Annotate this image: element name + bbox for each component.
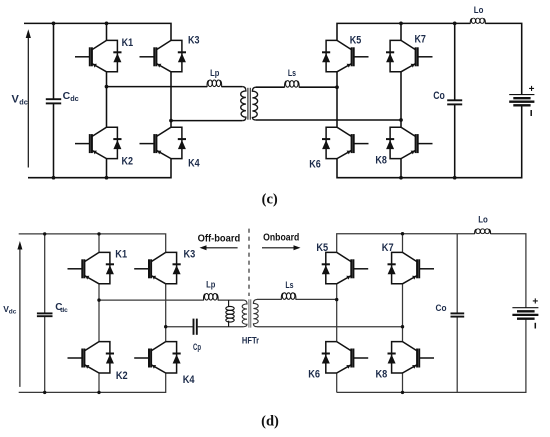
wire: (c) Co branch: [454, 23, 456, 177]
svg-text:K1: K1: [115, 248, 127, 260]
junction: (c) leg1 bottom: [105, 176, 109, 180]
transformer (c) core: [247, 88, 249, 120]
IGBT K7 (d): [388, 252, 435, 283]
svg-text:K3: K3: [184, 248, 196, 260]
wire: (d) top-right rail: [337, 234, 475, 253]
wire: (c) Cdc branch: [53, 23, 55, 177]
IGBT K3: [140, 40, 187, 71]
IGBT K4 (d): [134, 342, 181, 373]
svg-text:dc: dc: [9, 309, 17, 316]
junction: (c) Co bottom: [453, 176, 457, 180]
svg-text:K5: K5: [350, 34, 362, 46]
capacitor Cdc (d): [37, 313, 53, 316]
svg-text:+: +: [532, 297, 538, 308]
node D: (d) leg4 midpoint: [401, 325, 404, 328]
junction: (c) leg4 top: [399, 22, 403, 26]
svg-text:Lp: Lp: [210, 68, 219, 79]
svg-text:Ls: Ls: [285, 280, 293, 291]
svg-text:Off-board: Off-board: [198, 233, 241, 245]
wire: (c) leg4 top stub: [400, 23, 402, 40]
svg-text:K1: K1: [122, 37, 134, 49]
wire: (c) Ls to node C: [299, 86, 337, 88]
transformer (d) core: [248, 299, 250, 327]
junction: (d) leg4 bottom: [401, 391, 404, 394]
svg-text:Co: Co: [433, 90, 445, 102]
svg-text:(d): (d): [261, 413, 279, 429]
IGBT K5: [322, 40, 369, 71]
wire: (d) Lp to transformer: [218, 299, 244, 301]
wire: (c) node A to Lp: [107, 86, 208, 88]
battery (d): [512, 308, 538, 319]
node B: (d) leg2 midpoint: [164, 325, 167, 328]
svg-text:V: V: [12, 93, 20, 105]
svg-text:K6: K6: [309, 159, 321, 171]
node A: (d) leg1 midpoint: [97, 298, 100, 301]
inductor Lp (d): [204, 294, 219, 301]
wire: (c) leg1 bottom stub: [106, 159, 108, 178]
wire: (c) transformer to Ls: [256, 86, 285, 88]
node D: (c) leg4 midpoint: [399, 118, 403, 122]
IGBT K7: [386, 40, 433, 71]
capacitor Co (c): [447, 100, 462, 104]
svg-text:K7: K7: [382, 242, 394, 254]
svg-text:Co: Co: [436, 303, 447, 314]
wire: (c) node B to transformer bottom: [171, 120, 242, 122]
IGBT K2: [75, 127, 122, 158]
wire: (d) leg4 top stub: [402, 234, 404, 253]
inductor Lm (d) magnetizing: [226, 300, 234, 327]
svg-text:K4: K4: [183, 374, 196, 386]
wire: (d) Cp to transformer: [198, 326, 244, 328]
svg-text:Cp: Cp: [193, 342, 201, 353]
wire: (c) top-right rail after Lo: [485, 23, 522, 94]
svg-text:Onboard: Onboard: [263, 231, 299, 243]
inductor Lo (c): [470, 18, 485, 24]
wire: (d) leg1 bottom stub: [98, 373, 100, 392]
wire: (d) leg3 mid: [336, 284, 338, 342]
wire: (c) Lp to transformer: [221, 86, 242, 88]
wire: (c) transformer bottom to node D: [256, 119, 401, 121]
wire: (d) leg3 bottom stub: [336, 373, 338, 392]
IGBT K1 (d): [68, 252, 115, 283]
arrow Off-board: [206, 247, 238, 249]
wire: (c) leg1 mid: [106, 72, 108, 127]
arrow Onboard: [262, 247, 294, 249]
wire: (c) leg1 top stub: [106, 23, 108, 40]
IGBT K2 (d): [68, 342, 115, 373]
IGBT K6 (d): [322, 342, 369, 373]
IGBT K8 (d): [388, 342, 435, 373]
wire: (d) bottom-left rail: [19, 373, 166, 392]
inductor Ls (c): [285, 81, 300, 88]
junction: (c) Cdc bottom: [52, 176, 56, 180]
wire: (d) top-right rail after Lo: [491, 234, 526, 308]
Vdc arrow (c): [26, 29, 31, 167]
IGBT K4: [140, 127, 187, 158]
svg-text:dc: dc: [19, 98, 28, 107]
node B: (c) leg2 midpoint: [169, 119, 173, 123]
capacitor Co (d): [451, 313, 465, 316]
capacitor Cdc (c): [46, 99, 61, 103]
IGBT K1: [75, 40, 122, 71]
wire: (d) transformer to Ls: [257, 298, 281, 300]
wire: (d) leg1 top stub: [98, 234, 100, 253]
svg-text:Lo: Lo: [478, 215, 488, 226]
transformer (d) secondary winding: [253, 299, 258, 326]
svg-text:K2: K2: [122, 156, 134, 168]
svg-text:+: +: [529, 84, 535, 95]
wire: (d) node B to Cp: [166, 326, 193, 328]
node C: (d) leg3 midpoint: [335, 298, 338, 301]
svg-text:(c): (c): [262, 191, 278, 207]
Vdc arrow (d): [17, 241, 22, 387]
svg-text:K2: K2: [116, 370, 128, 382]
svg-text:K5: K5: [316, 242, 328, 254]
svg-text:K4: K4: [188, 158, 200, 170]
IGBT K3 (d): [134, 252, 181, 283]
wire: (d) Cdc branch: [44, 234, 46, 393]
transformer (d) primary winding: [242, 300, 247, 327]
junction: (d) Cdc top: [43, 232, 46, 235]
wire: (c) leg2 mid: [170, 72, 172, 127]
wire: (d) bottom-right rail: [337, 319, 526, 392]
svg-text:dc: dc: [70, 94, 79, 103]
wire: (d) node A to Lp: [99, 299, 204, 301]
wire: (d) leg1 mid: [98, 284, 100, 342]
wire: (c) bottom-right rail: [337, 105, 522, 177]
node A: (c) leg1 midpoint: [105, 85, 109, 89]
svg-text:HFTr: HFTr: [242, 336, 259, 347]
svg-text:Lo: Lo: [474, 5, 484, 16]
junction: (d) Cdc bottom: [43, 391, 46, 394]
wire: (d) Co branch: [456, 234, 458, 393]
wire: (c) leg3 mid: [336, 72, 338, 127]
transformer (c) secondary winding: [252, 87, 257, 120]
transformer (c) primary winding: [241, 87, 246, 121]
inductor Lp (c): [207, 80, 222, 87]
svg-text:Lp: Lp: [206, 280, 215, 291]
wire: (d) leg2 mid: [165, 284, 167, 342]
wire: (c) leg4 bottom stub: [400, 159, 402, 178]
IGBT K6: [322, 127, 369, 158]
node C: (c) leg3 midpoint: [335, 85, 339, 89]
svg-text:K6: K6: [308, 369, 320, 381]
junction: (d) leg1 top: [97, 232, 100, 235]
wire: (d) top-left rail: [19, 234, 166, 253]
junction: (c) leg1 top: [105, 22, 109, 26]
wire: (c) top-right rail: [337, 23, 470, 40]
capacitor Cp (d): [194, 319, 197, 335]
inductor Ls (d): [281, 293, 296, 300]
boundary dashed line: [248, 229, 250, 296]
junction: (c) leg4 bottom: [399, 176, 403, 180]
wire: (d) leg4 mid: [402, 284, 404, 342]
battery (c): [509, 95, 534, 106]
wire: (d) Ls to node C: [296, 298, 337, 300]
junction: (d) leg1 bottom: [97, 391, 100, 394]
wire: (c) bottom-left rail: [28, 159, 171, 178]
svg-text:K3: K3: [188, 35, 200, 47]
wire: (c) leg4 mid: [400, 72, 402, 127]
junction: (c) Co top: [453, 22, 457, 26]
IGBT K5 (d): [322, 252, 369, 283]
svg-text:K8: K8: [376, 369, 388, 381]
junction: (d) leg4 top: [401, 232, 404, 235]
wire: (c) top-left rail: [24, 23, 171, 40]
svg-text:K8: K8: [375, 155, 387, 167]
svg-text:Ls: Ls: [288, 68, 296, 79]
junction: (c) Cdc top: [52, 22, 56, 26]
IGBT K8: [386, 127, 433, 158]
wire: (d) leg4 bottom stub: [402, 373, 404, 392]
wire: (d) transformer bottom to node D: [257, 326, 403, 328]
svg-text:dc: dc: [60, 307, 68, 314]
svg-text:K7: K7: [414, 34, 426, 46]
inductor Lo (d): [475, 229, 491, 234]
